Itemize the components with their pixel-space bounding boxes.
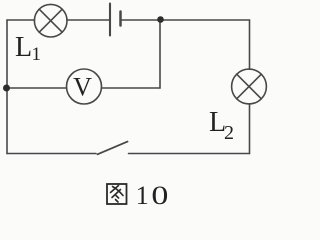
- wire left vertical (top-left corner down to bottom-left corner): [6, 20, 8, 154]
- wire bottom left segment: [7, 153, 96, 155]
- node junction top (dot): [157, 16, 164, 23]
- caption hanzi tu (figure) drawn as strokes: [107, 184, 127, 204]
- battery short plate (negative): [119, 12, 122, 26]
- battery long plate (positive): [109, 4, 111, 36]
- voltmeter U1: [67, 69, 102, 104]
- node junction left (dot): [3, 85, 10, 92]
- svg-text:L: L: [15, 32, 32, 63]
- wire lamp L1 to battery: [67, 19, 109, 21]
- svg-text:1: 1: [136, 181, 149, 210]
- svg-text:0: 0: [151, 181, 168, 210]
- wire battery to top-right corner: [122, 19, 250, 21]
- lamp L2: [232, 69, 267, 104]
- wire voltmeter branch left: [7, 87, 67, 89]
- switch S lever: [98, 142, 128, 155]
- wire right vertical lower (lamp L2 to bottom-right corner): [249, 104, 251, 154]
- wire right vertical upper (to lamp L2): [249, 20, 251, 69]
- wire bottom right segment: [129, 153, 250, 155]
- svg-text:2: 2: [224, 122, 234, 144]
- wire voltmeter branch right: [101, 87, 160, 89]
- wire top-left segment to lamp L1: [7, 19, 35, 21]
- lamp L1: [34, 4, 67, 37]
- svg-text:V: V: [73, 72, 92, 101]
- wire vertical from junction to voltmeter branch: [159, 20, 161, 89]
- svg-text:1: 1: [32, 44, 42, 65]
